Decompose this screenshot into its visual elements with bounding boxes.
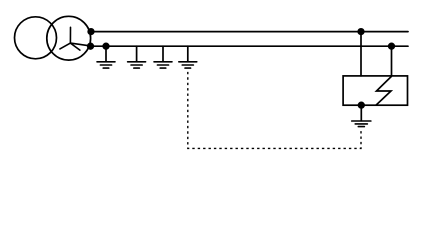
- node: neutral terminal junction: [88, 43, 94, 49]
- star (wye) winding symbol: [60, 27, 80, 50]
- node: phase terminal junction: [88, 29, 94, 35]
- transformer T1 secondary winding circle: [47, 16, 91, 60]
- ground symbol E4: [179, 62, 197, 68]
- surge arrester flash symbol: [376, 77, 391, 105]
- surge arrester F1 box: [343, 76, 407, 105]
- wire: earth stem 4: [187, 46, 189, 61]
- wire: drop from lower bus to arrester: [391, 46, 393, 76]
- wire: upper bus phase conductor L: [90, 31, 409, 33]
- wire: star point neutral lead to PEN junction: [70, 43, 90, 46]
- node: transformer earthing junction: [103, 43, 109, 49]
- wire: earth stem 2: [136, 46, 138, 61]
- ground symbol E3: [154, 62, 172, 68]
- transformer T1 primary winding circle: [15, 17, 57, 59]
- wire: arrester earth stem: [360, 105, 362, 121]
- wire: earth stem 1: [105, 46, 107, 61]
- node: arrester earth junction: [359, 102, 365, 108]
- node: lower bus tap junction: [389, 43, 395, 49]
- ground symbol E5 (arrester earth): [352, 121, 371, 127]
- wire: lower bus PEN conductor: [89, 45, 408, 47]
- ground symbol E1: [97, 62, 115, 68]
- wire: dashed bonding conductor from E4 to E5 earth: [188, 72, 361, 148]
- wire: drop from upper bus to arrester: [360, 32, 362, 76]
- ground symbol E2: [128, 62, 146, 68]
- wire: earth stem 3: [162, 46, 164, 61]
- node: upper bus tap junction: [358, 29, 364, 35]
